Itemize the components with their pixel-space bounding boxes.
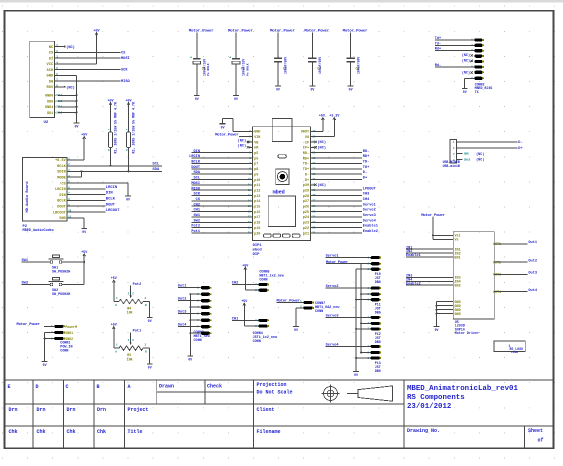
svg-text:p15: p15 xyxy=(254,206,260,210)
svg-text:VIN: VIN xyxy=(254,136,260,140)
switch SW2 push button xyxy=(22,278,85,297)
wire mbed IF+ (NC) xyxy=(311,145,326,150)
ground (servo bus) xyxy=(353,372,359,378)
svg-text:Out1: Out1 xyxy=(528,241,537,245)
svg-text:LPDOUT: LPDOUT xyxy=(363,187,377,191)
wire mbed p13 net SCK xyxy=(192,193,253,197)
ground (C3) xyxy=(275,86,281,92)
svg-text:SW_PUSH2H: SW_PUSH2H xyxy=(52,270,70,274)
ground (U2) xyxy=(74,123,80,129)
wire net Servo1 (P10) xyxy=(326,254,371,259)
svg-text:0V: 0V xyxy=(294,328,298,332)
svg-text:SDA: SDA xyxy=(152,168,160,172)
connector CONN1 POW_IN xyxy=(17,322,77,361)
wire mbed p11 net MOSI xyxy=(191,182,252,186)
svg-text:p6: p6 xyxy=(254,157,258,161)
svg-text:RD-: RD- xyxy=(363,150,369,154)
wire net Out3 (CONN3) xyxy=(178,311,201,315)
wire mbed p15 net CH2 xyxy=(192,203,253,207)
resistor R2 4.7K pull-up xyxy=(126,102,136,172)
svg-text:LOGO: LOGO xyxy=(511,351,518,354)
IC U5 L293D motor driver xyxy=(453,232,501,337)
svg-text:CONN: CONN xyxy=(194,339,202,343)
svg-text:Pot2: Pot2 xyxy=(191,225,200,229)
svg-text:p5: p5 xyxy=(254,152,258,156)
svg-text:p30: p30 xyxy=(303,184,309,188)
svg-text:Sheet: Sheet xyxy=(528,428,543,434)
svg-text:DIN: DIN xyxy=(106,192,114,196)
svg-text:p22: p22 xyxy=(303,227,309,231)
svg-text:p18: p18 xyxy=(254,222,260,226)
wire net IN2 (U5) xyxy=(406,250,453,254)
connector CONN6 USB-miniB xyxy=(443,140,485,168)
wire mbed net TD+ xyxy=(311,166,370,170)
wire mbed net Enable2 xyxy=(311,229,378,234)
wire U2 RSV + node (NC) xyxy=(55,85,75,90)
svg-text:Motor_Power: Motor_Power xyxy=(189,29,215,34)
svg-text:23/01/2012: 23/01/2012 xyxy=(407,403,451,411)
svg-text:+3.3V: +3.3V xyxy=(329,115,340,119)
svg-text:MBED_AudioCodec: MBED_AudioCodec xyxy=(23,228,55,233)
wire mbed net RD- xyxy=(311,150,370,154)
svg-text:Enable2: Enable2 xyxy=(363,229,378,234)
svg-text:p16: p16 xyxy=(254,211,260,215)
svg-text:+5V: +5V xyxy=(111,324,118,328)
connector P13 servo 4 xyxy=(367,345,381,373)
power +5V (switches) xyxy=(81,251,88,258)
ground (C1) xyxy=(194,96,200,102)
svg-text:SCK: SCK xyxy=(194,193,201,197)
svg-text:RD+: RD+ xyxy=(303,157,309,161)
svg-text:Enable1: Enable1 xyxy=(406,253,421,258)
svg-text:Out4: Out4 xyxy=(528,289,537,293)
svg-text:0V: 0V xyxy=(43,363,47,367)
svg-text:p24: p24 xyxy=(303,216,309,220)
svg-text:p12: p12 xyxy=(254,189,260,193)
svg-text:D: D xyxy=(36,384,39,390)
svg-text:p27: p27 xyxy=(303,200,309,204)
svg-text:CONN: CONN xyxy=(315,310,323,314)
svg-text:10K: 10K xyxy=(127,357,133,361)
svg-text:SDA: SDA xyxy=(194,171,201,175)
svg-text:Motor_Power: Motor_Power xyxy=(215,133,238,138)
svg-text:CH1: CH1 xyxy=(232,317,238,321)
svg-text:DBG: DBG xyxy=(375,369,381,373)
svg-text:Drawing No.: Drawing No. xyxy=(407,428,440,434)
svg-text:LRCIN: LRCIN xyxy=(106,186,118,190)
svg-text:Td+: Td+ xyxy=(435,36,441,41)
svg-text:D-: D- xyxy=(518,141,522,145)
svg-text:+: + xyxy=(229,57,231,61)
svg-text:(NC): (NC) xyxy=(66,85,75,90)
svg-text:Drawn: Drawn xyxy=(159,384,174,390)
svg-text:Td-: Td- xyxy=(435,41,441,46)
svg-text:GND2: GND2 xyxy=(65,337,73,341)
svg-text:Out1: Out1 xyxy=(178,285,187,289)
svg-text:GND: GND xyxy=(59,217,65,221)
svg-text:p13: p13 xyxy=(254,195,260,199)
wire RJ45 pin8 to ground xyxy=(465,78,475,88)
svg-text:Motor_Power: Motor_Power xyxy=(270,29,296,34)
svg-text:SW1: SW1 xyxy=(22,259,28,263)
svg-text:MODE: MODE xyxy=(57,177,65,181)
wire P2 net DOUT xyxy=(67,203,115,207)
svg-text:0V: 0V xyxy=(435,328,439,332)
svg-text:CS: CS xyxy=(49,52,54,56)
svg-text:SCK: SCK xyxy=(47,69,54,73)
svg-text:DD1: DD1 xyxy=(47,112,53,116)
wire net D+ (USB) xyxy=(463,147,523,151)
svg-text:IF+: IF+ xyxy=(303,147,309,151)
svg-text:TD-: TD- xyxy=(303,163,309,167)
wire net Out4 (U5) xyxy=(494,289,538,293)
wire mbed p20 net Pot1 xyxy=(191,230,252,234)
svg-text:(NC): (NC) xyxy=(317,145,326,150)
svg-text:Projection: Projection xyxy=(257,382,287,388)
wire mbed -IF (NC) xyxy=(311,140,326,145)
svg-text:Motor Driver: Motor Driver xyxy=(455,331,479,336)
svg-text:Servo1: Servo1 xyxy=(326,254,339,259)
svg-text:Chk: Chk xyxy=(37,429,46,435)
wire net Servo4 (P13) xyxy=(326,342,371,347)
svg-text:C: C xyxy=(66,384,69,390)
svg-text:p10: p10 xyxy=(254,179,260,183)
svg-text:MOSI: MOSI xyxy=(121,57,130,61)
svg-text:p14: p14 xyxy=(254,200,260,204)
svg-text:Motor_Power: Motor_Power xyxy=(343,29,369,34)
svg-text:SCL: SCL xyxy=(152,163,160,167)
power +5V (CONN4) xyxy=(241,300,248,307)
ground (P2 GND) xyxy=(81,229,87,235)
svg-text:Project: Project xyxy=(128,407,149,413)
wire P2 /CS to ground xyxy=(67,183,128,196)
svg-text:PowerM: PowerM xyxy=(65,325,77,329)
svg-text:100uF/50V: 100uF/50V xyxy=(318,57,322,74)
wire net Out2 (U5) xyxy=(494,259,537,263)
svg-text:MISO: MISO xyxy=(191,187,200,191)
svg-text:-IF: -IF xyxy=(303,141,309,145)
svg-text:0V: 0V xyxy=(82,230,86,234)
wire net SDA xyxy=(67,168,162,172)
svg-text:+5V: +5V xyxy=(81,134,88,138)
connector P10 servo 1 xyxy=(367,256,381,284)
svg-text:0V: 0V xyxy=(354,373,358,377)
svg-text:EN2: EN2 xyxy=(455,285,461,289)
wire mbed net CH3 xyxy=(311,193,370,197)
svg-text:+5V: +5V xyxy=(93,30,100,34)
wire U2 CS net CS xyxy=(55,51,126,55)
svg-text:DBG: DBG xyxy=(375,340,381,344)
wire net Rd- (RJ45) xyxy=(435,63,475,68)
svg-text:SHLD: SHLD xyxy=(464,159,471,162)
svg-text:TD-: TD- xyxy=(363,161,369,165)
wire P2 MODE riser xyxy=(67,170,82,177)
power +5V (P2) xyxy=(81,134,88,141)
svg-text:Pot1: Pot1 xyxy=(191,230,200,234)
wire P2 net DIN xyxy=(67,192,113,196)
svg-text:EN1: EN1 xyxy=(455,256,461,260)
svg-text:VOUT: VOUT xyxy=(301,131,309,135)
svg-text:RSV: RSV xyxy=(47,86,54,90)
svg-text:CH2: CH2 xyxy=(194,203,200,207)
svg-text:CH4: CH4 xyxy=(363,198,370,202)
svg-text:Drn: Drn xyxy=(67,407,76,413)
svg-text:B: B xyxy=(97,384,100,390)
svg-text:D-: D- xyxy=(363,171,367,175)
wire P2 net BCLK xyxy=(67,198,115,202)
svg-text:Out2: Out2 xyxy=(528,259,537,263)
svg-text:0V: 0V xyxy=(349,88,353,92)
svg-text:Drn: Drn xyxy=(37,407,46,413)
svg-text:GND1: GND1 xyxy=(45,106,53,110)
svg-text:p29: p29 xyxy=(303,189,309,193)
connector P12 servo 3 xyxy=(367,316,381,344)
svg-text:VU: VU xyxy=(305,136,309,140)
svg-text:0V: 0V xyxy=(463,90,467,94)
svg-text:Motor_Power: Motor_Power xyxy=(17,322,40,327)
ground (P2 /CS) xyxy=(125,196,131,202)
svg-text:Out3: Out3 xyxy=(528,272,537,276)
svg-text:CONN: CONN xyxy=(253,340,261,344)
wire net Out4 (CONN3) xyxy=(178,324,201,328)
svg-text:SW_PUSH2H: SW_PUSH2H xyxy=(52,293,70,297)
wire net SCL xyxy=(67,163,162,167)
wire mbed nR (NC) xyxy=(238,144,253,149)
svg-text:BCLK: BCLK xyxy=(106,198,116,202)
capacitor C5 xyxy=(343,29,369,87)
resistor R1 4.7K pull-up xyxy=(108,102,118,167)
svg-text:MBED_AnimatronicLab_rev01: MBED_AnimatronicLab_rev01 xyxy=(407,385,518,393)
svg-text:LRCIN: LRCIN xyxy=(189,155,200,159)
connector CONN7 Motor_Power xyxy=(277,298,341,326)
title text MBED_AnimatronicLab_rev01 xyxy=(407,385,518,411)
wire +5V bus (SW1 SW2) xyxy=(83,258,85,285)
wire net IN4 (U5) xyxy=(406,279,453,283)
wire U2 DI net MOSI xyxy=(55,57,130,61)
power +5V (R2) xyxy=(125,100,132,107)
svg-text:SCK: SCK xyxy=(121,69,128,73)
svg-text:+5V: +5V xyxy=(111,277,118,281)
svg-text:BCLK: BCLK xyxy=(57,165,66,169)
svg-text:0V: 0V xyxy=(148,366,152,370)
ground (R3) xyxy=(147,364,153,370)
wire mbed p19 net Pot2 xyxy=(191,225,252,229)
wire mbed VU to +3.3V xyxy=(311,122,335,137)
ground (mbed GND) xyxy=(220,124,226,130)
svg-text:Vs: Vs xyxy=(455,239,459,243)
wire mbed VIN net Motor_Power xyxy=(215,133,253,138)
svg-text:0V: 0V xyxy=(276,88,280,92)
svg-text:SDIN: SDIN xyxy=(57,171,65,175)
svg-text:Servo2: Servo2 xyxy=(363,208,376,213)
svg-text:BCLK: BCLK xyxy=(57,200,66,204)
svg-text:+5V: +5V xyxy=(242,264,249,268)
svg-text:Servo4: Servo4 xyxy=(326,342,340,347)
svg-text:BCLK: BCLK xyxy=(191,161,200,165)
wire mbed VOUT to +5V xyxy=(311,122,323,132)
svg-text:DBG: DBG xyxy=(375,280,381,284)
wire net Out1 (CONN3) xyxy=(178,285,201,289)
svg-text:0V: 0V xyxy=(126,198,130,202)
svg-text:GND: GND xyxy=(254,131,260,135)
svg-text:100uF/16V: 100uF/16V xyxy=(203,59,207,76)
svg-text:DI: DI xyxy=(49,57,53,61)
wire mbed net TD- xyxy=(311,161,370,165)
svg-text:Drn: Drn xyxy=(97,407,106,413)
svg-text:Po BULK: Po BULK xyxy=(207,63,210,76)
svg-text:A: A xyxy=(128,384,131,390)
wire mbed VB (NC) xyxy=(238,138,253,143)
capacitor C2 xyxy=(228,29,254,96)
power +5V (CONN5) xyxy=(242,264,249,271)
svg-text:DOUT: DOUT xyxy=(57,206,65,210)
svg-text:CONN: CONN xyxy=(259,279,267,283)
svg-text:DD0: DD0 xyxy=(47,100,53,104)
wire mbed GND to ground xyxy=(223,119,253,132)
wire mbed p18 net SW2 xyxy=(192,219,253,223)
wire net IN1 (U5) xyxy=(406,246,453,250)
svg-text:Out3: Out3 xyxy=(178,311,187,315)
capacitor C4 xyxy=(304,29,330,87)
connector CONN5 CH2 xyxy=(232,267,285,292)
wire servo Motor_Power bus xyxy=(326,260,371,354)
svg-text:Out2: Out2 xyxy=(178,298,187,302)
svg-text:TX: TX xyxy=(475,90,479,94)
wire P2 GND xyxy=(67,218,84,229)
power +5V (U2 VCC) xyxy=(93,30,100,37)
svg-text:of: of xyxy=(538,438,544,444)
svg-text:+5V: +5V xyxy=(125,100,132,104)
wire net Rd+ (RJ45) xyxy=(435,47,475,52)
svg-text:Out4: Out4 xyxy=(178,324,187,328)
svg-text:Motor_Power: Motor_Power xyxy=(304,29,330,34)
connector CONN2 MBED_RJ45 xyxy=(471,38,492,94)
power +5V (R4) xyxy=(111,277,118,284)
svg-text:0V: 0V xyxy=(75,125,79,129)
wire mbed p7 net BCLK xyxy=(191,161,252,165)
svg-text:(NC): (NC) xyxy=(66,45,75,50)
svg-text:SW2: SW2 xyxy=(194,219,200,223)
svg-text:mbed: mbed xyxy=(253,248,263,253)
svg-text:Servo2: Servo2 xyxy=(326,284,339,289)
svg-text:p8: p8 xyxy=(254,168,258,172)
wire P2 net LRCOUT xyxy=(67,209,120,213)
wire mbed p30 (NC) xyxy=(311,183,326,188)
svg-text:p7: p7 xyxy=(254,163,258,167)
ground (CONN3) xyxy=(187,356,193,362)
wire net Servo2 (P11) xyxy=(326,284,371,289)
title block grid xyxy=(5,380,554,448)
ground (RJ45) xyxy=(462,88,468,94)
svg-text:E: E xyxy=(8,384,11,390)
svg-text:0V: 0V xyxy=(188,358,192,362)
svg-text:GND: GND xyxy=(455,313,461,317)
svg-text:Po BULK: Po BULK xyxy=(246,63,249,76)
ground (CONN7) xyxy=(293,327,299,333)
svg-text:mbed: mbed xyxy=(273,189,285,195)
wire U2 NC + node (NC) xyxy=(55,45,75,50)
svg-text:Drn: Drn xyxy=(9,407,18,413)
svg-text:DBG: DBG xyxy=(375,311,381,315)
svg-text:(NC): (NC) xyxy=(317,140,326,145)
svg-text:Rd-: Rd- xyxy=(435,63,441,68)
wire mbed p14 net CS xyxy=(192,198,253,202)
svg-text:USB-miniB: USB-miniB xyxy=(443,164,460,168)
svg-text:(NC): (NC) xyxy=(476,152,484,157)
svg-text:p19: p19 xyxy=(254,227,260,231)
svg-text:GND1: GND1 xyxy=(65,331,73,335)
wire net Servo3 (P12) xyxy=(326,313,371,318)
svg-text:p11: p11 xyxy=(254,184,260,188)
svg-text:Pot1: Pot1 xyxy=(133,330,142,334)
svg-text:p9: p9 xyxy=(254,173,258,177)
svg-text:GND0: GND0 xyxy=(45,95,53,99)
svg-text:+5V: +5V xyxy=(241,300,248,304)
svg-text:MISO: MISO xyxy=(121,80,130,84)
svg-text:NC: NC xyxy=(49,46,54,50)
connector CONN4 CH1 xyxy=(232,303,278,344)
wire U5 GND bus xyxy=(436,302,454,327)
svg-text:(NC): (NC) xyxy=(238,138,247,143)
svg-text:0V: 0V xyxy=(221,125,225,129)
svg-text:D+: D+ xyxy=(305,179,309,183)
wire net Td- (RJ45) xyxy=(435,41,475,46)
capacitor C1 xyxy=(189,29,215,96)
svg-text:100uF/50V: 100uF/50V xyxy=(356,57,360,74)
wire net Out2 (CONN3) xyxy=(178,298,201,302)
svg-text:LRCOUT: LRCOUT xyxy=(53,211,66,215)
svg-text:p17: p17 xyxy=(254,216,260,220)
connector CONN3 outputs xyxy=(194,286,212,343)
wire net Enable1 (U5) xyxy=(406,253,453,258)
switch SW1 push button xyxy=(22,255,85,274)
wire mbed net Servo3 xyxy=(311,213,376,218)
svg-text:RD+: RD+ xyxy=(363,155,369,159)
svg-text:DO: DO xyxy=(49,80,54,84)
svg-text:VCC: VCC xyxy=(47,63,54,67)
svg-text:TD+: TD+ xyxy=(303,168,309,172)
svg-text:Chk: Chk xyxy=(97,429,106,435)
svg-text:DOUT: DOUT xyxy=(191,166,200,170)
wire mbed net LPDOUT xyxy=(311,187,377,191)
svg-text:DIN: DIN xyxy=(59,194,65,198)
svg-text:Rd+: Rd+ xyxy=(435,47,441,52)
svg-text:R2, 10K5 1/16W 5% MRF 4.7K: R2, 10K5 1/16W 5% MRF 4.7K xyxy=(132,102,136,153)
capacitor C3 xyxy=(270,29,296,87)
svg-text:(NC): (NC) xyxy=(462,70,470,75)
svg-text:Chk: Chk xyxy=(67,429,76,435)
svg-text:D+: D+ xyxy=(518,147,522,151)
svg-text:+5V.: +5V. xyxy=(319,115,327,119)
svg-text:0V: 0V xyxy=(234,97,238,101)
wire net Enable2 (U5) xyxy=(406,281,453,286)
svg-text:(NC): (NC) xyxy=(238,144,247,149)
svg-text:SW2: SW2 xyxy=(22,282,28,286)
svg-text:Title: Title xyxy=(128,429,143,435)
potentiometer R3 10K xyxy=(114,330,150,365)
wire U5 Vs Motor_Power xyxy=(421,213,453,239)
svg-text:0V: 0V xyxy=(310,88,314,92)
svg-text:(NC): (NC) xyxy=(317,183,326,188)
wire mbed p8 net DOUT xyxy=(191,166,252,170)
wire servo ground bus xyxy=(355,269,371,371)
svg-text:p28: p28 xyxy=(303,195,309,199)
svg-text:0V: 0V xyxy=(148,319,152,323)
svg-text:+5V: +5V xyxy=(81,251,88,255)
svg-text:DIP: DIP xyxy=(253,253,261,257)
ground (R4) xyxy=(147,318,153,324)
wire net IN3 (U5) xyxy=(406,275,453,279)
